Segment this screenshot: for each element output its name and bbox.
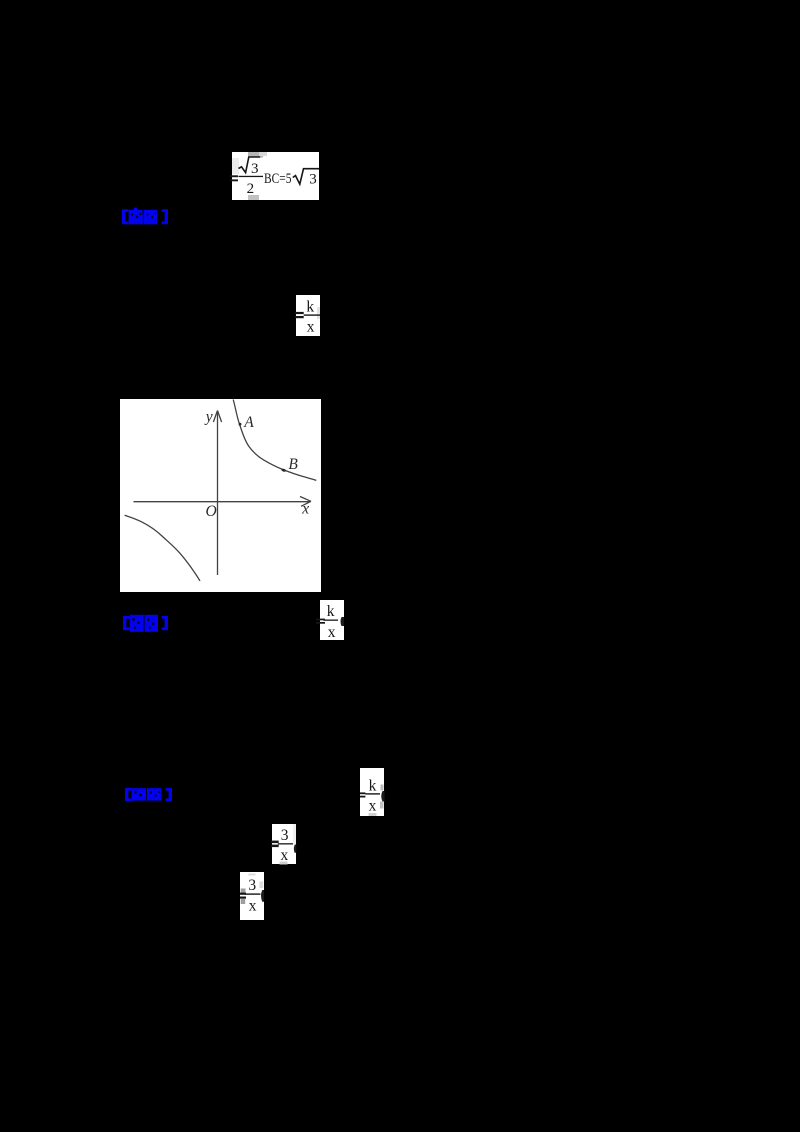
svg-text:A: A — [243, 414, 254, 431]
svg-text:3: 3 — [248, 877, 256, 894]
equals sign (clipped at left edge) — [230, 175, 238, 177]
blue label 3 — [124, 787, 173, 802]
point A dot — [239, 423, 242, 426]
svg-text:B: B — [288, 456, 298, 473]
svg-text:3: 3 — [281, 827, 289, 844]
svg-text:O: O — [206, 503, 217, 520]
y axis — [217, 412, 219, 575]
equation image: = sqrt(3)/2 BC = 5 sqrt(3) — [232, 152, 319, 200]
clipped glyph at right edge — [294, 844, 296, 852]
equation image: =k/x (2) — [320, 600, 344, 640]
svg-text:3: 3 — [251, 161, 259, 177]
x axis — [134, 501, 310, 503]
quadrant I branch of hyperbola — [233, 400, 316, 481]
radical of numerator sqrt3 — [239, 157, 261, 173]
svg-text:2: 2 — [247, 181, 255, 197]
svg-text:k: k — [306, 299, 314, 316]
point B dot — [281, 468, 286, 472]
labels — [204, 409, 309, 521]
svg-text:k: k — [327, 603, 335, 620]
svg-text:x: x — [307, 319, 315, 336]
blue label 2 — [122, 614, 169, 632]
quadrant III branch of hyperbola — [125, 515, 200, 581]
fraction bar — [239, 176, 264, 177]
svg-text:y: y — [204, 409, 213, 426]
radical of trailing sqrt3 — [293, 169, 319, 185]
svg-text:k: k — [368, 777, 376, 794]
svg-text:x: x — [249, 897, 257, 914]
svg-text:x: x — [280, 846, 288, 863]
clipped glyph at right edge — [381, 791, 384, 802]
svg-text:x: x — [328, 624, 336, 641]
equation image: =k/x (3) — [360, 768, 385, 816]
clipped glyph at right edge — [261, 890, 264, 902]
svg-text:BC=5: BC=5 — [264, 171, 292, 187]
svg-text:3: 3 — [309, 171, 317, 187]
svg-text:x: x — [301, 501, 309, 518]
blue label 1 — [121, 207, 169, 225]
equation image: =3/x — [240, 872, 264, 921]
equation image: =k/x — [296, 295, 320, 336]
svg-text:x: x — [368, 797, 376, 814]
graph of inverse-proportion function — [120, 399, 321, 592]
clipped glyph at right edge — [341, 617, 345, 626]
equation image: 3/x — [272, 824, 296, 865]
